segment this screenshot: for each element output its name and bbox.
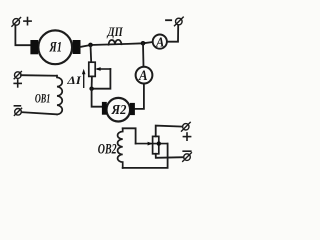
wire ОВ1 bottom to - terminal: [22, 112, 57, 114]
rheostat R1 (ΔI regulation): [89, 62, 95, 76]
field winding ОВ1: [57, 76, 62, 115]
node junction J3 below R1: [89, 87, 93, 91]
wire + terminal to ОВ1 top: [21, 74, 57, 77]
rheostat R2 (field regulator): [153, 136, 159, 153]
field winding ОВ2: [118, 128, 123, 168]
terminal +, top-left: [12, 18, 21, 27]
brush left of Я1: [30, 40, 38, 54]
arrow up beside ΔI: [83, 73, 85, 88]
wire A1 to - terminal: [167, 25, 178, 41]
plus label top-left: [24, 18, 31, 25]
terminal +, bottom-right: [182, 122, 191, 131]
terminal -, top-right: [175, 17, 184, 26]
svg-text:ОВ2: ОВ2: [98, 142, 117, 158]
ammeter A1: [153, 35, 167, 49]
plus label bottom-right: [183, 133, 190, 140]
minus label bottom-right: [183, 150, 191, 152]
ammeter A2: [136, 67, 153, 84]
wiper arrowhead of R2: [148, 142, 153, 146]
wire J3 to Я2 left brush: [92, 89, 102, 107]
wire Я1 to ammeter A1 (main top wire): [80, 42, 152, 47]
terminal -, bottom-right: [183, 153, 192, 162]
svg-text:Я1: Я1: [49, 39, 62, 55]
brush right of Я2: [130, 103, 135, 115]
svg-text:ДП: ДП: [107, 25, 124, 39]
svg-text:ΔI: ΔI: [66, 73, 82, 87]
wiper arrow of R1: [98, 68, 111, 70]
inductor ДП (commutating poles): [109, 40, 122, 45]
wire from + terminal to Я1 left brush: [15, 25, 31, 45]
wire J2 down to ammeter A2: [142, 43, 145, 66]
minus label left: [14, 105, 20, 107]
wire J1 down to rheostat ΔI: [90, 45, 93, 62]
plus label left: [14, 80, 21, 87]
node junction J1 below Я1 output: [88, 43, 93, 48]
wire wiper loop of R1: [92, 69, 111, 89]
node junction J2 before A1: [141, 41, 146, 46]
wire wiper down and back to ОВ2 bottom: [123, 144, 168, 168]
svg-text:A: A: [138, 68, 148, 84]
wire R2 top to + terminal: [156, 126, 183, 137]
minus label top-right: [166, 19, 171, 21]
wire R2 bottom to - terminal: [156, 154, 184, 158]
wire ОВ2 top to R2 wiper: [123, 128, 136, 143]
terminal +, left (ОВ1 supply): [14, 72, 21, 79]
terminal -, left: [14, 108, 21, 115]
svg-text:Я2: Я2: [111, 103, 127, 118]
wire A2 to Я2 right brush: [135, 84, 144, 109]
armature Я1: [38, 30, 72, 64]
wiper wire through R2: [136, 143, 168, 145]
node junction at R2 right: [157, 141, 161, 145]
svg-text:ОВ1: ОВ1: [35, 91, 51, 106]
svg-text:A: A: [155, 36, 164, 51]
brush left of Я2: [102, 102, 107, 115]
armature Я2: [107, 98, 131, 122]
brush right of Я1: [73, 40, 81, 54]
wire R1 bottom lead: [91, 76, 93, 88]
